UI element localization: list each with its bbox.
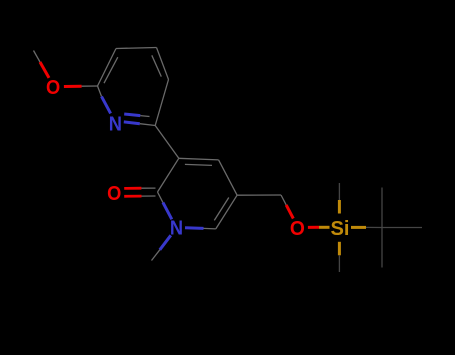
bond C4-C5 core [219,160,238,195]
bond N1-CH3 N-methyl (carbon half) [152,250,160,261]
svg-text:N: N [109,112,122,135]
svg-text:O: O [290,217,305,240]
bond N1-C2 pyridine (carbon half) [98,86,102,96]
bond N1-CH3 N-methyl (N1c half) [160,235,171,250]
bond C2-C3 core [158,158,179,192]
bond Si-CH3 up (carbon half) [338,183,340,200]
bond C5=C6 core (inner line) [214,198,229,221]
bond C3=C4 core (inner line) [185,164,212,165]
bond N1-C2 core (carbon half) [158,192,163,202]
bond C2=O carbonyl lower line (oxygen half) [124,195,141,198]
bond C2=C3 pyridine [98,49,117,87]
bond N1-C6 core (carbon half) [204,227,216,230]
bond Si-CH3 down (carbon half) [338,255,340,272]
bond tBu CH3 up [381,188,383,228]
svg-text:O: O [46,76,60,99]
bond CH3-O methoxy (carbon half) [34,51,41,63]
svg-text:O: O [107,182,121,205]
bond tBu CH3 right [382,227,422,229]
bond Si-CH3 up (silicon half) [338,200,341,214]
bond Si-C tBu (carbon half) [366,226,382,228]
svg-text:N: N [170,217,183,240]
bond CH3-O methoxy (O_ome half) [40,62,49,78]
bond Si-C tBu (silicon half) [351,226,366,229]
bond N1=C6 pyridine inner (gray part) [140,115,149,118]
bond Si-CH3 down (silicon half) [338,242,341,256]
bond C5=C6 core [216,195,237,229]
svg-text:Si: Si [331,217,350,240]
bond N1=C6 pyridine inner (blue part) [124,114,140,116]
bond C3-C4 pyridine [116,48,157,49]
bond C2=O carbonyl upper line (carbon half) [141,187,155,189]
bond N1-C2 core (N1c half) [163,202,172,219]
bond O-Si (silicon half) [319,226,330,229]
bond CH2-O silyl ether (carbon half) [281,195,286,205]
bond C2=O carbonyl upper line (oxygen half) [124,187,141,190]
bond biaryl C6py-C3core [155,126,179,159]
bond C3=C4 core [179,158,219,160]
bond C2=C3 pyridine (inner line) [104,57,118,83]
bond tBu CH3 down [381,228,383,268]
bond C5-CH2 [237,194,281,196]
bond N1-C6 core (N1c half) [185,226,204,230]
bond O-Si (oxygen half) [308,226,319,229]
bond C4=C5 pyridine (inner line) [152,55,162,76]
bond C4=C5 pyridine [157,48,169,80]
bond C5-C6 pyridine [155,80,168,126]
bond C2=O carbonyl lower line (carbon half) [142,195,156,197]
bond N1=C6 pyridine main (carbon half) [140,124,155,126]
bond O-C2 methoxy to pyridine (O_ome half) [64,85,82,88]
bond N1-C2 pyridine (N1p half) [102,96,111,113]
bond O-C2 methoxy to pyridine (carbon half) [82,85,98,87]
bond CH2-O silyl ether (O_ch half) [286,205,293,219]
bond N1=C6 pyridine main (blue half) [124,122,140,124]
